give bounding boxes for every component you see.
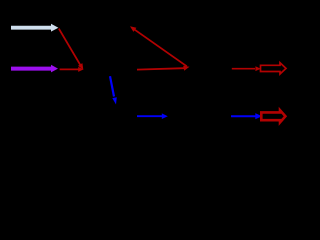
bottom outline block arrow (red outline, bold) [261,110,285,122]
blue diagonal arrow pointing down [110,76,117,104]
short red arrow into top outline block arrow [232,66,261,71]
blue horizontal arrow into bottom outline block arrow [231,113,262,119]
input arrow 1 (light blue, top left) [11,24,58,32]
red diagonal arrow from light-blue tip into junction 1 [59,29,84,70]
red mid horizontal arrow into junction 2 [137,66,190,71]
red diagonal arrow out of junction 2 pointing up-left [130,26,187,66]
input arrow 2 (purple, left) [11,65,58,73]
blue horizontal arrow (bottom middle) [137,113,168,119]
top outline block arrow (red outline) [261,63,287,74]
red horizontal arrow from purple tip into junction 1 [60,67,84,72]
